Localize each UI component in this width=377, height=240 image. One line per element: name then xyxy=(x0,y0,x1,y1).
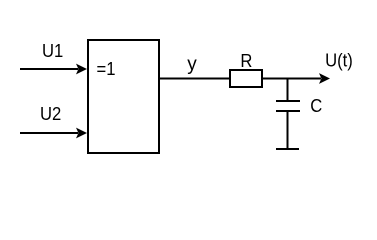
svg-text:U1: U1 xyxy=(42,40,63,61)
arrowhead output U(t) xyxy=(319,73,330,84)
arrowhead input U1 xyxy=(76,64,87,75)
svg-text:R: R xyxy=(240,50,252,71)
wire junction to capacitor xyxy=(287,79,289,103)
bottom terminal bar xyxy=(276,148,299,150)
gate U1 XOR box xyxy=(88,40,159,153)
svg-text:U2: U2 xyxy=(40,103,61,124)
wire input U1 xyxy=(20,68,78,70)
wire resistor to arrow xyxy=(262,78,321,80)
capacitor C top plate xyxy=(276,100,300,102)
svg-text:U(t): U(t) xyxy=(325,50,353,71)
capacitor C bottom plate xyxy=(276,110,300,112)
svg-text:=1: =1 xyxy=(97,58,116,79)
resistor R xyxy=(230,70,262,87)
wire output y xyxy=(160,78,230,80)
wire input U2 xyxy=(20,132,78,134)
svg-text:y: y xyxy=(187,54,197,75)
wire capacitor to terminal xyxy=(287,111,289,149)
svg-text:C: C xyxy=(310,95,322,116)
arrowhead input U2 xyxy=(76,128,87,139)
